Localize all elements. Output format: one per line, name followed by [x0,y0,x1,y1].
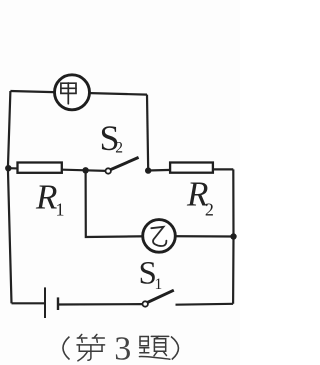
node junction dot S2 right [145,167,151,173]
resistor R2 [170,163,213,173]
caption close paren [171,337,178,360]
caption char 第 [77,334,105,360]
node junction dot branch [82,167,88,173]
switch S1 pivot [143,301,148,306]
meter 乙 glyph [151,227,166,246]
battery cell: short plate [57,297,59,310]
switch S1 lever [148,290,174,302]
caption char 题 [139,336,170,359]
caption open paren [63,337,70,360]
wire bottom left to battery [12,302,46,304]
svg-text:2: 2 [205,199,214,219]
wire middle right (S2 to R2 to right corner) [148,169,233,170]
wire middle left (through R1 to S2 pivot) [8,168,106,171]
node junction dot left [5,165,11,171]
switch S2 lever [111,157,139,169]
node junction dot right vertical [230,233,236,239]
svg-text:1: 1 [56,199,65,219]
wire meter B to right vertical [159,235,234,238]
wire top-right vertical [147,95,148,171]
svg-text:R: R [35,178,57,217]
wire branch to meter B [86,170,159,237]
wire right vertical [232,169,235,303]
resistor R1 [18,163,62,173]
meter 乙 circle [143,220,176,253]
wire top horizontal [10,91,147,95]
meter 甲 (ammeter) circle [55,75,90,110]
svg-text:2: 2 [115,140,123,157]
wire bottom right after S1 [176,303,234,306]
battery cell: long plate [44,287,46,318]
svg-text:3: 3 [114,331,131,365]
svg-text:1: 1 [155,276,163,293]
meter 甲 glyph [61,83,76,104]
wire left vertical [8,91,12,303]
switch S2 pivot [106,168,111,173]
wire battery to S1 pivot [58,303,143,306]
